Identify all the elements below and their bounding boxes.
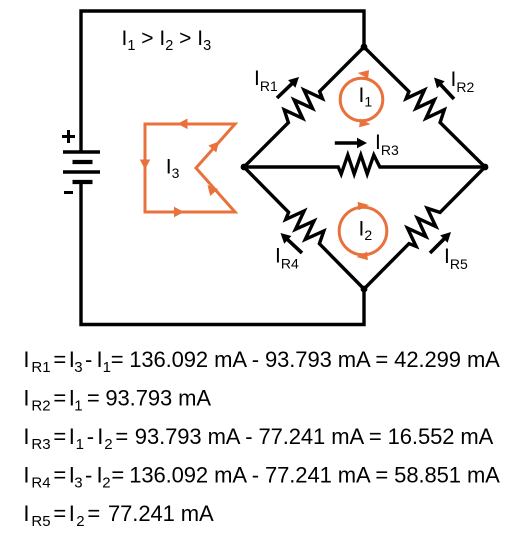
svg-text:IR3=I1-I2=93.793 mA - 77.241 m: IR3=I1-I2=93.793 mA - 77.241 mA = 16.552… <box>23 424 493 453</box>
